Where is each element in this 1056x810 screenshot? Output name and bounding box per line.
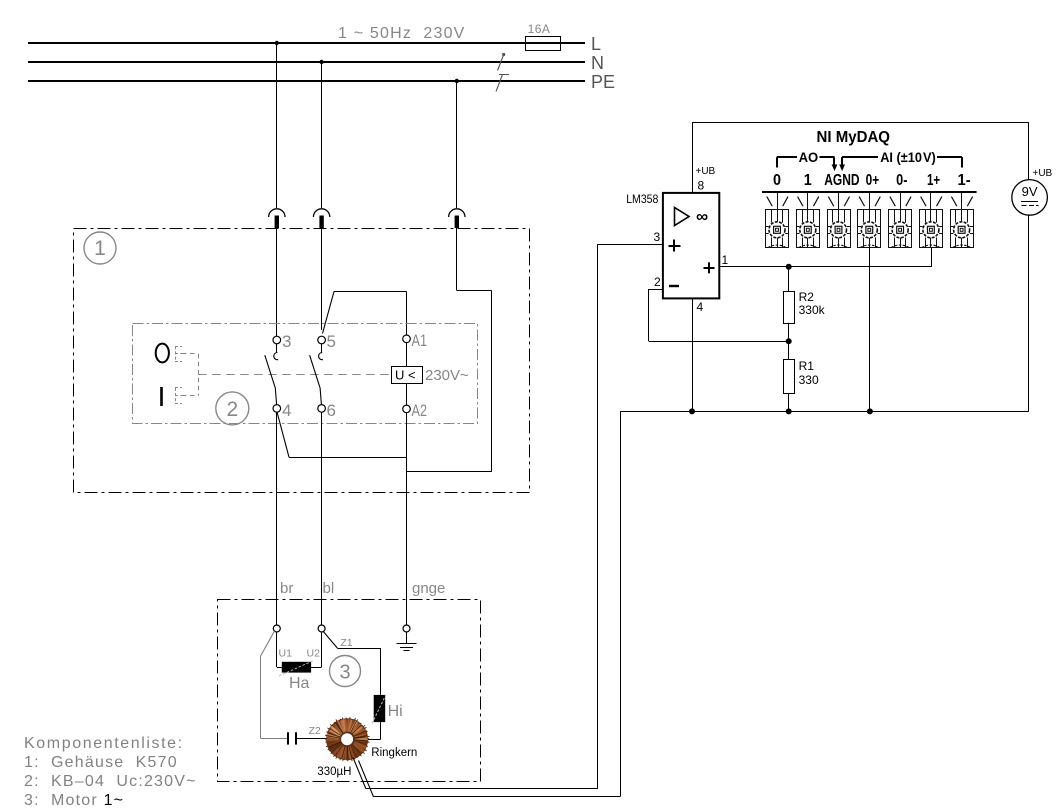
svg-text:+UB: +UB bbox=[696, 166, 716, 177]
svg-text:NI MyDAQ: NI MyDAQ bbox=[817, 129, 891, 146]
svg-text:1-: 1- bbox=[958, 172, 971, 189]
svg-text:8: 8 bbox=[698, 179, 705, 193]
svg-text:Hi: Hi bbox=[388, 703, 403, 720]
svg-text:3: Motor 1~: 3: Motor 1~ bbox=[24, 792, 124, 809]
svg-text:R2: R2 bbox=[799, 290, 815, 304]
svg-text:1: Gehäuse K570: 1: Gehäuse K570 bbox=[24, 754, 178, 771]
svg-text:U <: U < bbox=[395, 368, 416, 383]
svg-text:1: 1 bbox=[804, 172, 812, 189]
svg-text:+UB: +UB bbox=[1033, 168, 1053, 179]
svg-text:U2: U2 bbox=[307, 648, 321, 660]
svg-text:4: 4 bbox=[697, 300, 704, 314]
svg-text:3: 3 bbox=[282, 332, 291, 351]
svg-text:N: N bbox=[591, 53, 604, 73]
svg-text:A2: A2 bbox=[412, 401, 428, 420]
svg-text:6: 6 bbox=[327, 401, 336, 420]
svg-text:0: 0 bbox=[773, 172, 781, 189]
svg-text:U1: U1 bbox=[279, 648, 293, 660]
svg-text:Z1: Z1 bbox=[340, 637, 352, 649]
svg-text:AGND: AGND bbox=[824, 172, 859, 189]
svg-text:2: KB–04 Uc:230V~: 2: KB–04 Uc:230V~ bbox=[24, 773, 197, 790]
svg-text:330µH: 330µH bbox=[317, 766, 351, 778]
svg-text:1: 1 bbox=[722, 253, 729, 267]
svg-text:AO: AO bbox=[799, 149, 819, 165]
svg-text:5: 5 bbox=[327, 332, 336, 351]
svg-text:L: L bbox=[591, 34, 601, 54]
svg-text:3: 3 bbox=[339, 662, 350, 684]
svg-text:LM358: LM358 bbox=[626, 192, 658, 206]
svg-text:3: 3 bbox=[654, 230, 661, 244]
svg-text:330: 330 bbox=[799, 373, 819, 387]
svg-text:Komponentenliste:: Komponentenliste: bbox=[24, 735, 184, 752]
svg-text:gnge: gnge bbox=[412, 580, 445, 597]
svg-text:br: br bbox=[280, 580, 293, 597]
svg-text:Z2: Z2 bbox=[309, 725, 321, 737]
svg-text:AI (±10 V): AI (±10 V) bbox=[880, 149, 936, 165]
svg-text:PE: PE bbox=[591, 72, 615, 92]
svg-text:230V~: 230V~ bbox=[425, 367, 469, 384]
svg-text:2: 2 bbox=[226, 398, 238, 421]
svg-text:2: 2 bbox=[654, 275, 661, 289]
svg-text:330k: 330k bbox=[799, 303, 826, 317]
svg-text:0-: 0- bbox=[896, 172, 907, 189]
svg-text:16A: 16A bbox=[528, 22, 551, 36]
svg-text:∞: ∞ bbox=[696, 207, 708, 226]
svg-text:Ringkern: Ringkern bbox=[371, 747, 417, 759]
svg-text:R1: R1 bbox=[799, 359, 815, 373]
svg-text:0+: 0+ bbox=[866, 172, 880, 189]
svg-text:bl: bl bbox=[323, 580, 335, 597]
svg-text:1+: 1+ bbox=[927, 172, 940, 189]
svg-text:9V: 9V bbox=[1022, 184, 1038, 199]
svg-text:4: 4 bbox=[282, 401, 291, 420]
svg-text:1 ~ 50Hz 230V: 1 ~ 50Hz 230V bbox=[338, 25, 466, 42]
svg-text:Ha: Ha bbox=[289, 675, 310, 692]
svg-text:1: 1 bbox=[94, 237, 106, 260]
svg-text:A1: A1 bbox=[412, 331, 428, 350]
